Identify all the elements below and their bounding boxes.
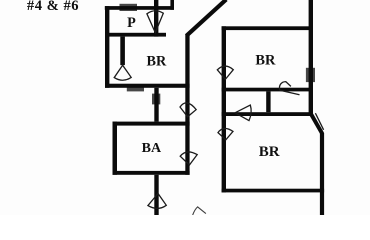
svg-text:P: P [127, 15, 136, 31]
svg-text:BA: BA [142, 141, 162, 156]
svg-text:BR: BR [255, 52, 276, 68]
svg-text:#4 & #6: #4 & #6 [27, 0, 79, 14]
svg-text:BR: BR [259, 144, 280, 160]
svg-text:BR: BR [147, 54, 167, 70]
